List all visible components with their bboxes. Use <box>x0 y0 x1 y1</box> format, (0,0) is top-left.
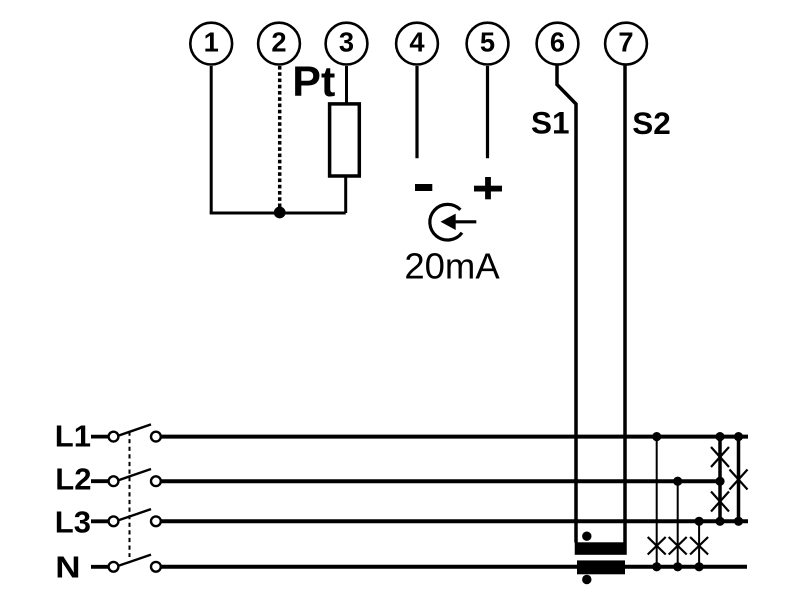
junction dot N tap3 <box>695 562 704 571</box>
current transformer primary bar <box>575 542 627 555</box>
svg-text:S1: S1 <box>531 104 570 140</box>
terminal 3 <box>326 23 368 65</box>
junction dot L3 link <box>715 517 724 526</box>
wire bus L3 <box>162 519 749 523</box>
junction dot L1 tap <box>652 432 661 441</box>
wire tap L3 to N <box>698 521 700 567</box>
terminal 2 <box>258 23 300 65</box>
junction dot L1 link <box>715 432 724 441</box>
terminal 5 <box>467 23 509 65</box>
svg-text:2: 2 <box>271 27 286 58</box>
resistor Pt sensor <box>330 104 360 176</box>
wire tap L1 to N <box>656 437 658 567</box>
current source arrowhead <box>441 214 456 230</box>
minus polarity label <box>415 184 432 191</box>
junction dot L1 link outer <box>734 432 743 441</box>
current transformer polarity dot upper <box>582 532 591 541</box>
svg-text:7: 7 <box>618 27 633 58</box>
fuse X link lower <box>711 492 729 512</box>
svg-text:Pt: Pt <box>292 58 335 106</box>
fuse X on L1 tap <box>648 537 666 555</box>
switch L1 pole <box>91 424 161 441</box>
junction dot L3 link outer <box>734 517 743 526</box>
svg-text:L3: L3 <box>55 505 91 540</box>
switch linkage dashed line <box>129 432 131 558</box>
svg-text:L1: L1 <box>55 418 91 453</box>
current source symbol circle <box>430 204 462 240</box>
wire terminal 6 jog <box>557 66 576 543</box>
terminal 7 <box>605 23 647 65</box>
wire terminal 7 down <box>623 66 627 543</box>
svg-text:1: 1 <box>204 27 219 58</box>
plus polarity label <box>474 177 502 199</box>
junction dot L2 link <box>715 477 724 486</box>
fuse X on L3 tap <box>690 537 708 555</box>
terminal 4 <box>396 23 438 65</box>
svg-text:L2: L2 <box>55 461 91 496</box>
wire link L1 to L3 outer <box>737 437 741 522</box>
wire bus N <box>162 565 748 569</box>
junction dot N tap1 <box>652 562 661 571</box>
wire bus L2 <box>162 479 721 483</box>
junction dot node <box>274 207 286 219</box>
current transformer secondary bar <box>577 560 625 574</box>
wire horizontal connector node <box>210 212 346 215</box>
svg-text:N: N <box>55 550 80 585</box>
wire link L1 to L3 <box>718 437 722 522</box>
terminal 6 <box>537 23 579 65</box>
wire terminal 4 down <box>415 66 418 158</box>
fuse X on L2 tap <box>669 537 687 555</box>
svg-text:5: 5 <box>480 27 495 58</box>
svg-text:4: 4 <box>409 27 425 58</box>
fuse X link upper <box>711 447 729 467</box>
wire terminal 5 down <box>486 66 489 158</box>
wire terminal 1 down <box>210 66 213 213</box>
junction dot L3 tap <box>695 517 704 526</box>
wire tap L2 to N <box>677 481 679 567</box>
current source arrow shaft <box>453 220 476 223</box>
switch L2 pole <box>91 469 161 486</box>
svg-text:3: 3 <box>339 27 354 58</box>
wire terminal 3 to resistor <box>345 66 348 105</box>
switch N pole <box>91 555 161 572</box>
svg-text:S2: S2 <box>632 105 671 141</box>
wire bus L1 <box>162 435 749 439</box>
fuse X link outer <box>730 470 748 490</box>
svg-text:20mA: 20mA <box>404 246 500 287</box>
terminal 1 <box>190 23 232 65</box>
svg-text:6: 6 <box>550 27 565 58</box>
current transformer polarity dot lower <box>582 575 591 584</box>
junction dot L2 tap <box>673 477 682 486</box>
junction dot N tap2 <box>673 562 682 571</box>
wire resistor bottom <box>344 176 347 213</box>
dotted wire terminal 2 <box>278 66 282 207</box>
switch L3 pole <box>91 509 161 526</box>
